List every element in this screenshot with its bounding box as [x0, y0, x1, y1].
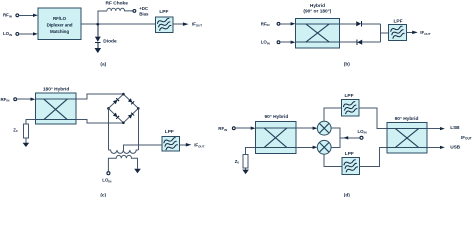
svg-text:USB: USB [450, 145, 460, 151]
wire hybrid top out to diode D1 [339, 23, 356, 25]
svg-text:LSB: LSB [450, 125, 460, 131]
svg-text:Hybrid: Hybrid [310, 3, 325, 9]
svg-text:LPF: LPF [344, 93, 353, 99]
wire mixer2 to LPF2 (d) [324, 154, 342, 166]
wire LPF to IF_OUT (b) [406, 31, 412, 33]
svg-text:LPF: LPF [393, 19, 402, 25]
arrow USB [440, 146, 445, 149]
arrow into hybrid1 RF (d) [251, 127, 256, 130]
block LPF (c) [162, 137, 179, 152]
wire RF_IN to hybrid1 (d) [235, 127, 251, 129]
arrow into hybrid RF (b) [291, 22, 296, 25]
arrow IF_OUT (a) [183, 22, 189, 26]
arrow IF_OUT (c) [186, 143, 192, 147]
arrow IF_OUT (b) [412, 31, 418, 35]
arrow into diplexer RF input [33, 14, 38, 17]
ground below Z0 (c) [23, 143, 30, 147]
ground below Z0 (d) [242, 170, 249, 175]
svg-text:+DC: +DC [139, 6, 149, 11]
wire hybrid bottom out to diode D2 [339, 41, 357, 43]
junction node (a) [96, 23, 99, 26]
wire LPF to IF_OUT (c) [179, 144, 186, 146]
arrow into mixer1 [313, 127, 318, 130]
ground right of primary (c) [134, 169, 141, 174]
ring corner node right [137, 107, 140, 110]
wire hybrid1 to mixer2 [296, 146, 314, 148]
terminal RF_IN (c) [14, 98, 17, 101]
svg-text:(b): (b) [344, 62, 350, 67]
svg-text:180° Hybrid: 180° Hybrid [43, 86, 70, 92]
ring corner node left [107, 107, 110, 110]
diode D1 (b) [356, 21, 361, 26]
inductor RF Choke [107, 8, 133, 11]
terminal RF_IN (b) [277, 22, 280, 25]
terminal RF_IN (d) [232, 127, 235, 130]
block LPF2 (d) [342, 158, 360, 175]
wire ring left corner down to transformer [107, 108, 109, 150]
wire hybrid to Z0 (c) [26, 120, 36, 125]
svg-text:(a): (a) [100, 62, 106, 67]
wire LPF2 to hybrid2 (d) [360, 147, 388, 166]
block LPF (b) [389, 24, 407, 40]
terminal LO_IN (b) [277, 41, 280, 44]
svg-text:Diode: Diode [103, 38, 117, 44]
block LPF (a) [155, 17, 173, 33]
svg-text:Diplexer and: Diplexer and [47, 23, 73, 28]
wire D2 to summing node [362, 41, 380, 43]
wire hybrid2 to LSB [427, 128, 440, 130]
diode ring D4 bottom-right [128, 112, 134, 118]
wire Z0 to ground (d) [245, 168, 247, 170]
wire RF_IN to diplexer [19, 14, 34, 16]
terminal LO_IN (d) [360, 136, 363, 139]
svg-text:(c): (c) [100, 193, 106, 197]
block hybrid (b) [296, 18, 340, 48]
block 90 hybrid first (d) [256, 121, 296, 153]
transformer primary winding (c) [108, 155, 137, 171]
block 180 hybrid (c) [36, 93, 77, 124]
resistor Z0 (c) [23, 124, 28, 138]
terminal RF_IN (a) [16, 14, 19, 17]
arrow LSB [440, 127, 445, 130]
wire RF_IN to hybrid (b) [280, 23, 291, 25]
wire Z0 to ground [25, 138, 27, 143]
wire LO_IN to splitter (d) [340, 137, 360, 139]
svg-text:Bias: Bias [139, 12, 149, 17]
wire mixer1 to LPF1 (d) [324, 108, 341, 122]
diode ring D2 top-right [128, 98, 134, 104]
wire LO_IN to diplexer [19, 33, 34, 35]
svg-text:90° Hybrid: 90° Hybrid [265, 114, 289, 120]
diode D2 (b) [357, 40, 362, 45]
wire LPF1 to hybrid2 (d) [359, 108, 387, 129]
arrow into mixer2 [313, 146, 318, 149]
svg-text:Matching: Matching [50, 29, 69, 34]
svg-text:(d): (d) [344, 193, 350, 197]
svg-text:RF Choke: RF Choke [106, 0, 129, 6]
wire D1 to summing node [362, 23, 381, 25]
arrow LO into splitter [343, 136, 348, 139]
block LPF1 (d) [342, 100, 360, 117]
arrow into hybrid LO (b) [291, 41, 296, 44]
svg-text:LPF: LPF [159, 9, 168, 15]
wire hybrid2 to USB [427, 146, 440, 148]
wire hybrid1 to Z0 (d) [246, 147, 256, 154]
ring corner node top [122, 93, 125, 96]
wire LPF to IF_OUT [173, 23, 183, 25]
wire hybrid top to ring top corner [76, 94, 123, 99]
block 90 hybrid second (d) [387, 122, 427, 153]
block RF/LO Diplexer and Matching [38, 8, 81, 40]
wire hybrid1 to mixer1 [296, 127, 314, 129]
wire hybrid bottom to ring bottom corner [76, 120, 123, 123]
wire junction up to RF choke [98, 11, 107, 24]
diode ring edges [108, 94, 138, 123]
wire center tap to LPF (c) [123, 145, 162, 150]
wire LO splitter vertical (d) [331, 128, 340, 147]
transformer secondary winding (c) [108, 150, 138, 153]
wire ring right corner down to transformer [137, 108, 139, 150]
svg-text:(90° or 180°): (90° or 180°) [303, 8, 331, 14]
diode (a) [95, 24, 101, 48]
resistor Z0 (d) [243, 154, 248, 168]
wire diplexer output to LPF [81, 23, 155, 25]
ground (a) [95, 48, 102, 53]
wire LO_IN to hybrid (b) [280, 41, 291, 43]
arrow into hybrid RF (c) [31, 98, 36, 101]
svg-text:RF/LO: RF/LO [53, 16, 67, 21]
ring corner node bottom [122, 122, 125, 125]
terminal LO_IN (c) [107, 172, 110, 175]
mixer1 (d) [317, 121, 331, 135]
wire summing node to LPF (b) [380, 32, 388, 34]
arrow into diplexer LO input [33, 32, 38, 35]
terminal +DC Bias [133, 10, 136, 13]
svg-text:LPF: LPF [165, 129, 174, 135]
diode ring D3 bottom-left [113, 113, 119, 119]
svg-text:90° Hybrid: 90° Hybrid [395, 116, 419, 122]
diode ring D1 top-left [113, 98, 119, 104]
svg-text:LPF: LPF [345, 151, 354, 157]
terminal LO_IN (a) [16, 33, 19, 36]
wire RF_IN to hybrid (c) [17, 98, 31, 100]
wire summing vertical (b) [379, 24, 381, 42]
mixer2 (d) [317, 140, 331, 154]
